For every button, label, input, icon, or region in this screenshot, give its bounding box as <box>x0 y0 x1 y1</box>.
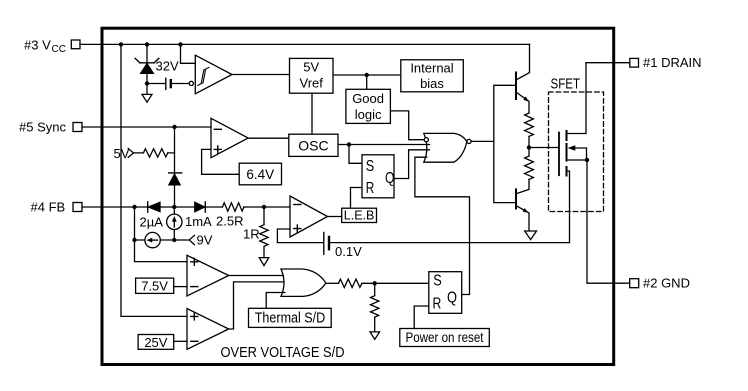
ground GND1 <box>142 94 152 102</box>
svg-text:OVER VOLTAGE S/D: OVER VOLTAGE S/D <box>221 344 345 361</box>
gate U3 NOR body <box>424 133 467 162</box>
transistor M1 SFET gate bar <box>558 133 560 176</box>
bubble U1 input <box>189 81 193 85</box>
wire OSC out to gate U3 <box>338 144 430 146</box>
battery B1 0.1V <box>323 233 325 255</box>
transistor Q2 <box>515 189 517 208</box>
svg-text:OSC: OSC <box>298 137 328 153</box>
svg-text:R: R <box>433 296 442 313</box>
pin #2 GND terminal <box>630 279 639 288</box>
resistor R8 <box>371 296 379 318</box>
wire 7.5V box to U5 minus <box>174 286 187 288</box>
pin #3 VCC terminal <box>71 40 80 49</box>
transistor M1 channel <box>566 131 568 176</box>
box 5V Vref <box>290 58 334 93</box>
node OSC-out <box>347 142 351 146</box>
diode D2 <box>147 202 149 212</box>
svg-text:25V: 25V <box>144 335 167 350</box>
wire Q1 emitter <box>516 92 529 113</box>
wire SFET sense to 0.1V <box>329 171 569 243</box>
ground GND2 <box>525 231 537 240</box>
wire R2 to node <box>528 136 530 156</box>
svg-text:Thermal S/D: Thermal S/D <box>255 310 326 326</box>
svg-text:S: S <box>366 158 375 175</box>
op-amp U1 hysteresis buffer body <box>195 55 232 94</box>
node bias-B <box>172 238 176 242</box>
box Internal bias <box>401 60 464 92</box>
wire VCC rail <box>80 43 530 45</box>
wire FB node down <box>134 207 136 240</box>
wire OR out to resistor <box>326 282 339 284</box>
SFET dashed box <box>549 92 604 212</box>
current source I1 1mA <box>167 214 182 229</box>
comparator U5 7.5V body <box>187 255 229 296</box>
wire latch1 Q to gate U3 <box>394 150 429 179</box>
svg-text:S: S <box>433 273 442 290</box>
wire to 7.5V comparator plus <box>135 240 188 262</box>
latch FF1 <box>362 155 394 198</box>
resistor R3 <box>525 156 534 179</box>
ground GND4 <box>370 332 380 339</box>
node VCC-B <box>145 42 149 46</box>
comparator U4 current-limit body <box>290 196 328 237</box>
wire SFET source <box>567 159 588 161</box>
node bias-A <box>132 238 136 242</box>
node shutdown <box>373 281 377 285</box>
wire U2 out to OSC <box>248 137 289 139</box>
node gate-drive <box>527 145 531 149</box>
wire U1 out to 5V Vref <box>232 74 290 76</box>
resistor R6 <box>143 149 167 157</box>
wire lower current row <box>135 239 190 241</box>
ground GND3 <box>259 258 269 266</box>
comparator U2 sync body <box>211 118 248 157</box>
wire Q2 emitter <box>516 206 529 231</box>
wire U5 out to OR <box>229 275 284 277</box>
wire R3 to Q2 collector <box>516 179 529 193</box>
resistor R2 <box>525 113 534 136</box>
svg-text:6.4V: 6.4V <box>246 167 274 182</box>
wire U6 out to OR <box>229 282 283 329</box>
box Thermal S/D <box>249 308 332 327</box>
svg-text:7.5V: 7.5V <box>141 279 168 294</box>
node FB-B <box>172 205 176 209</box>
wire OSC node to latch1 S <box>349 145 362 164</box>
pin #1 DRAIN terminal <box>630 58 639 67</box>
node VCC-A <box>119 42 123 46</box>
svg-text:L.E.B: L.E.B <box>344 209 375 223</box>
wire drain to pin <box>586 62 630 64</box>
box Good logic <box>346 89 391 123</box>
zener D4 9V chevron <box>189 235 194 244</box>
wire VCC to 25V comparator <box>121 44 187 316</box>
node zener-cap <box>145 81 149 85</box>
wire 1R top <box>263 207 265 225</box>
wire 0.1V to U4 plus <box>277 229 323 243</box>
box Power on reset <box>400 329 490 347</box>
wire U4 out to L.E.B <box>328 216 342 218</box>
bubble U3 input <box>424 138 428 142</box>
wire sync node vertical <box>174 127 176 207</box>
latch FF2 <box>429 272 462 314</box>
wire 5V Vref to OSC <box>311 93 313 134</box>
svg-text:bias: bias <box>420 76 444 91</box>
transistor M1 body arrow <box>568 145 576 150</box>
svg-text:#3 V: #3 V <box>24 37 51 52</box>
wire U2 plus to 6.4V <box>202 149 240 174</box>
svg-text:5V: 5V <box>303 60 319 75</box>
svg-text:Q: Q <box>447 290 457 307</box>
wire 5V Vref to Internal bias <box>333 74 401 76</box>
svg-text:#4 FB: #4 FB <box>31 199 66 214</box>
wire zener stem <box>146 44 148 94</box>
node Vref-out <box>365 73 369 77</box>
node SFET-source <box>585 158 589 162</box>
wire driver bases <box>494 85 516 202</box>
box 7.5V <box>136 278 174 293</box>
svg-text:2µA: 2µA <box>140 215 164 230</box>
supply chevron 5V <box>128 149 133 158</box>
resistor R4 2.5R <box>222 203 244 211</box>
svg-text:Internal: Internal <box>410 61 453 76</box>
box OSC <box>289 134 338 156</box>
svg-text:1R: 1R <box>243 226 260 241</box>
pin #5 Sync terminal <box>73 123 82 132</box>
wire SFET body <box>575 148 587 160</box>
svg-text:9V: 9V <box>197 232 213 247</box>
svg-text:Q: Q <box>385 170 395 187</box>
wire Thermal to OR <box>266 293 285 309</box>
svg-text:5V: 5V <box>114 146 130 161</box>
current source I2 2uA <box>145 232 160 247</box>
svg-text:32V: 32V <box>156 59 179 74</box>
svg-text:Vref: Vref <box>300 76 324 91</box>
wire 5V supply to resistor <box>134 152 175 154</box>
comparator U6 25V body <box>187 309 229 350</box>
wire node to SFET gate <box>529 147 559 149</box>
gate U7 OR body <box>281 269 326 296</box>
svg-text:2.5R: 2.5R <box>216 214 243 229</box>
box 6.4V <box>239 163 281 185</box>
node VCC-C <box>178 42 182 46</box>
svg-text:R: R <box>366 180 375 197</box>
wire 1mA branch <box>173 207 175 240</box>
wire SFET drain <box>567 63 587 134</box>
wire node to R8 <box>374 283 376 332</box>
svg-text:logic: logic <box>355 107 382 122</box>
wire source to GND pin <box>587 160 630 283</box>
bubble U3 output <box>467 139 471 143</box>
capacitor C1 <box>165 78 167 89</box>
wire 1R to ground <box>263 247 265 258</box>
wire FB <box>82 206 290 208</box>
wire L.E.B to latch1 R <box>351 188 363 209</box>
wire Good logic to gate U3 <box>390 111 424 140</box>
wire latch2 Q to gate U3 <box>415 157 470 294</box>
wire gate U3 out <box>471 140 494 142</box>
transistor Q1 <box>515 73 517 100</box>
box 25V <box>138 335 174 350</box>
svg-text:#2 GND: #2 GND <box>643 276 690 291</box>
svg-text:CC: CC <box>52 44 66 55</box>
IC block boundary <box>102 28 614 364</box>
svg-text:#5 Sync: #5 Sync <box>19 119 66 134</box>
svg-text:Good: Good <box>352 91 384 106</box>
resistor R5 1R <box>260 225 268 247</box>
wire resistor to latch2 S <box>362 282 429 284</box>
svg-text:1mA: 1mA <box>185 214 212 229</box>
node FB-A <box>132 205 136 209</box>
pin #4 FB terminal <box>73 203 82 212</box>
wire Power on reset to latch2 R <box>414 306 429 329</box>
wire node to Good logic <box>366 75 368 89</box>
wire Q1 collector <box>516 44 530 80</box>
wire cap node <box>147 83 189 85</box>
node sync <box>172 125 176 129</box>
box L.E.B <box>342 208 377 222</box>
wire VCC to U1 input <box>181 44 196 63</box>
diode D3 <box>195 202 205 211</box>
diode D5 <box>169 172 182 174</box>
zener D1 32V <box>135 58 159 62</box>
svg-text:0.1V: 0.1V <box>335 244 362 259</box>
svg-text:SFET: SFET <box>551 76 581 92</box>
svg-text:#1 DRAIN: #1 DRAIN <box>643 55 702 70</box>
resistor R7 <box>338 279 362 287</box>
wire 25V box to U6 minus <box>174 340 187 342</box>
wire Sync <box>82 126 211 128</box>
node FB-C <box>262 205 266 209</box>
svg-text:Power on reset: Power on reset <box>406 329 484 345</box>
